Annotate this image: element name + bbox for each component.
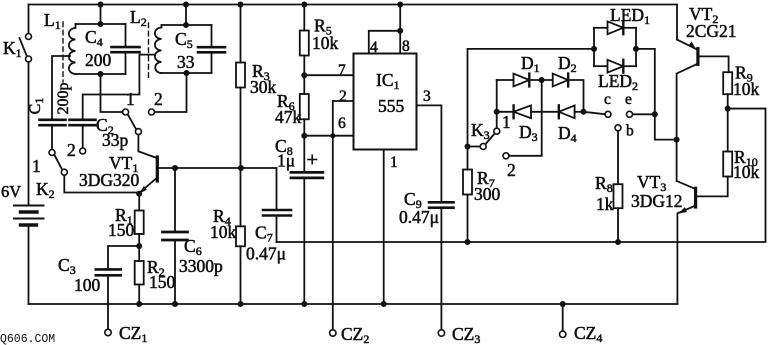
svg-text:10k: 10k [733,79,760,99]
svg-text:300: 300 [474,184,501,204]
svg-text:0.47μ: 0.47μ [399,207,439,227]
svg-text:7: 7 [338,62,346,79]
svg-text:3DG12: 3DG12 [631,191,683,211]
svg-text:Q606.COM: Q606.COM [0,333,55,345]
svg-text:0.47μ: 0.47μ [246,244,286,264]
svg-text:1: 1 [502,112,511,132]
svg-text:1: 1 [126,89,135,109]
svg-text:6V: 6V [1,182,21,201]
svg-text:1: 1 [32,156,41,176]
svg-text:e: e [625,91,632,108]
svg-text:30k: 30k [250,77,277,97]
svg-text:1: 1 [390,154,398,171]
svg-text:33: 33 [177,52,195,72]
svg-text:b: b [626,123,634,140]
svg-text:47k: 47k [275,107,302,127]
svg-text:150: 150 [149,272,176,292]
svg-text:100: 100 [74,275,101,295]
svg-text:200p: 200p [55,83,72,115]
svg-text:8: 8 [402,38,410,55]
svg-text:2: 2 [67,140,76,160]
svg-text:2: 2 [339,88,347,105]
svg-text:10k: 10k [312,33,339,53]
svg-text:6: 6 [338,115,346,132]
svg-text:3300p: 3300p [179,256,223,276]
svg-text:2CG21: 2CG21 [686,21,737,41]
svg-text:10k: 10k [733,162,760,182]
svg-text:1μ: 1μ [277,151,295,171]
svg-text:3: 3 [423,88,431,105]
svg-text:10k: 10k [210,222,237,242]
svg-text:555: 555 [378,96,405,116]
svg-text:c: c [604,91,611,108]
svg-text:33p: 33p [102,130,129,150]
svg-text:2: 2 [507,160,516,180]
svg-text:150: 150 [108,220,135,240]
svg-text:200: 200 [85,50,112,70]
svg-text:2: 2 [154,89,163,109]
svg-text:1k: 1k [596,194,614,214]
svg-text:4: 4 [370,39,378,56]
svg-text:3DG320: 3DG320 [79,170,140,190]
svg-text:LED2: LED2 [598,71,638,93]
svg-text:LED1: LED1 [610,5,650,27]
